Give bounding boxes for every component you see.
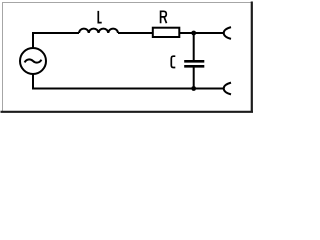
frame light edges [3,3,252,113]
voltage source (AC) [20,48,46,74]
wire: capacitor branch upper [193,33,195,60]
wire: inductor to resistor [118,32,152,34]
wire: source top stub to top rail [33,33,79,48]
frame dark edges [1,2,254,112]
terminal: top output [224,27,231,39]
resistor R [153,28,180,37]
node: top junction dot [191,31,196,36]
inductor L [79,29,118,33]
wire: capacitor branch lower [193,68,195,89]
wire: resistor to top terminal [179,32,223,34]
capacitor C [184,61,204,66]
label R [161,11,167,23]
label C [171,56,175,67]
label L [98,11,101,23]
wire: source bottom stub and bottom rail [33,74,223,89]
node: bottom junction dot [191,86,196,91]
terminal: bottom output [224,83,231,95]
